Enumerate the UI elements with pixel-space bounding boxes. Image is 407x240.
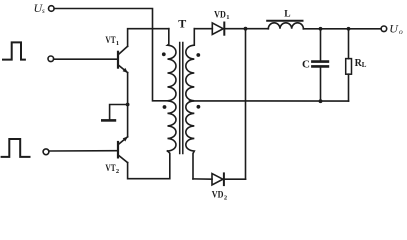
svg-text:o: o [399,27,403,36]
wire L to output [303,28,381,30]
svg-text:L: L [284,10,290,20]
wire VT2 collector to primary bottom [128,151,170,179]
node C top [319,27,323,31]
transformer T core [179,43,181,154]
wire secondary top to VD1 [194,28,212,30]
diode VD1 [212,23,224,35]
pulse waveform input 1 [3,42,25,59]
inductor L core bar [267,20,302,22]
svg-text:VD: VD [212,190,224,200]
capacitor C [312,29,328,101]
wire VD2 cathode up [224,178,246,180]
output terminal node Uo [381,26,387,32]
wire bottom rail (secondary center tap to RL bottom) [190,100,349,102]
wire Us top rail to center tap [54,9,170,101]
svg-text:s: s [42,7,45,15]
label VT1 [105,36,119,47]
input terminal node Us [49,6,55,12]
input terminal node b2 [43,149,49,155]
svg-text:1: 1 [226,14,229,21]
label Us [34,1,46,15]
inductor L [268,23,303,29]
svg-text:L: L [362,61,367,69]
svg-text:T: T [178,17,186,31]
svg-text:VT: VT [105,36,116,46]
label Uo [389,21,403,36]
svg-text:2: 2 [116,168,119,175]
polarity dot secondary top [196,53,200,57]
diode VD2 [212,173,224,185]
svg-text:2: 2 [224,194,227,201]
svg-text:VD: VD [214,10,226,20]
wire base 2 [49,150,117,152]
svg-text:C: C [302,59,310,71]
resistor RL [346,29,352,101]
wire VD2 anode from secondary bottom [193,178,212,180]
transformer primary winding [168,29,176,151]
transistor VT2 [118,137,128,163]
ground [102,103,129,121]
polarity dot primary top [162,52,166,56]
svg-text:1: 1 [116,40,119,47]
wire VD1 cathode to L [224,28,268,30]
label VD2 [212,190,227,201]
transistor VT1 [118,46,128,73]
label VD1 [214,10,229,21]
node RL top [347,27,351,31]
pulse waveform input 2 [2,139,30,157]
svg-text:VT: VT [105,164,116,174]
transformer secondary winding [186,29,194,179]
node C bottom [319,99,323,103]
wire VT1 collector to primary top [128,29,169,47]
wire diode junction down to VD2 [245,29,247,180]
polarity dot secondary bottom [197,105,201,109]
svg-text:U: U [389,21,399,35]
wire base 1 [54,58,117,60]
node diode junction [244,27,248,31]
wire VT1 emitter / VT2 emitter common [127,73,129,137]
polarity dot primary bottom [163,105,167,109]
input terminal node b1 [48,56,54,62]
label RL [355,58,367,69]
label VT2 [105,164,119,175]
